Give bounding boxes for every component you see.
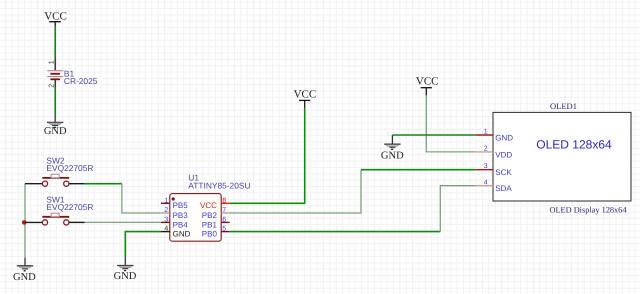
wire IC GND to ground (125, 232, 161, 258)
svg-text:GND: GND (13, 272, 36, 283)
pin 8 VCC (221, 202, 230, 204)
ground (left rail) (13, 258, 36, 283)
svg-text:PB5: PB5 (173, 201, 189, 210)
wire left rail (24, 184, 26, 258)
wire SW1 to PB4 (85, 221, 161, 223)
svg-text:VCC: VCC (44, 11, 67, 23)
wire PB2 to SCK (dim) (230, 170, 361, 213)
pin 4 SDA (476, 185, 493, 187)
svg-text:7: 7 (222, 207, 226, 214)
power flag VCC (IC) (294, 89, 317, 108)
svg-text:PB0: PB0 (202, 230, 218, 239)
svg-text:EVQ22705R: EVQ22705R (46, 163, 93, 173)
svg-text:4: 4 (484, 179, 488, 186)
svg-text:2: 2 (164, 207, 168, 214)
svg-text:SDA: SDA (495, 184, 512, 193)
svg-text:SCK: SCK (495, 168, 512, 177)
pin 2 VDD (476, 151, 493, 153)
ground (IC) (114, 258, 137, 282)
wire SDA vertical+horizontal (dim) (440, 186, 475, 232)
svg-text:VCC: VCC (294, 89, 317, 101)
svg-text:OLED 128x64: OLED 128x64 (536, 138, 612, 152)
pushbutton SW1 EVQ22705R (25, 195, 93, 225)
svg-text:PB3: PB3 (173, 211, 189, 220)
OLED display OLED1 (476, 101, 631, 215)
pushbutton SW2 EVQ22705R (25, 156, 93, 187)
svg-text:VCC: VCC (200, 201, 217, 210)
pin 1 PB5 (161, 202, 170, 204)
svg-text:OLED1: OLED1 (550, 101, 577, 111)
wire IC VCC (pin 8) up to VCC flag (230, 108, 305, 204)
svg-text:GND: GND (495, 133, 513, 142)
svg-text:VCC: VCC (416, 76, 439, 88)
wire bend down to PB3 row (122, 184, 161, 213)
svg-text:PB1: PB1 (202, 220, 218, 229)
pin 7 PB2 (221, 212, 230, 214)
svg-text:CR-2025: CR-2025 (64, 76, 98, 86)
IC U1 ATTINY85-20SU (161, 173, 251, 242)
battery B1 CR-2025 (47, 58, 98, 88)
junction node (22, 220, 27, 225)
svg-text:GND: GND (44, 126, 67, 137)
power flag VCC (OLED) (416, 76, 439, 96)
svg-text:PB4: PB4 (173, 220, 189, 229)
svg-text:5: 5 (222, 226, 226, 233)
wire battery pin 2 to GND (54, 88, 56, 115)
svg-text:3: 3 (484, 163, 488, 170)
svg-text:1: 1 (164, 197, 168, 204)
svg-text:1: 1 (48, 60, 55, 64)
wire VCC to VDD (dim) (426, 95, 475, 151)
svg-text:EVQ22705R: EVQ22705R (46, 202, 93, 212)
svg-text:4: 4 (164, 226, 168, 233)
svg-text:OLED Display 128x64: OLED Display 128x64 (550, 206, 628, 215)
svg-text:PB2: PB2 (202, 211, 218, 220)
svg-text:VDD: VDD (495, 150, 512, 159)
wire PB0 to SDA (230, 231, 441, 233)
pin 3 PB4 (161, 221, 170, 223)
svg-text:1: 1 (484, 129, 488, 136)
pin 2 PB3 (161, 212, 170, 214)
pin 5 PB0 (221, 231, 230, 233)
pin 3 SCK (476, 169, 493, 171)
pin 6 PB1 (221, 221, 230, 223)
svg-text:3: 3 (164, 217, 168, 224)
pin 4 GND (161, 231, 170, 233)
power flag VCC (battery net) (44, 11, 67, 27)
svg-text:ATTINY85-20SU: ATTINY85-20SU (188, 181, 250, 191)
ground (battery) (44, 115, 67, 138)
wire SCK horizontal (361, 169, 476, 171)
pin 1 GND (476, 134, 493, 136)
ground (OLED) (381, 135, 404, 162)
svg-text:2: 2 (484, 146, 488, 153)
svg-text:8: 8 (222, 197, 226, 204)
svg-text:GND: GND (381, 151, 404, 162)
svg-text:GND: GND (173, 230, 191, 239)
svg-text:2: 2 (48, 84, 55, 88)
wire SW2 to bend (85, 183, 122, 185)
wire VCC to battery pin 1 (54, 27, 56, 58)
svg-text:GND: GND (114, 271, 137, 282)
svg-text:6: 6 (222, 217, 226, 224)
wire GND to OLED pin 1 (392, 134, 475, 136)
